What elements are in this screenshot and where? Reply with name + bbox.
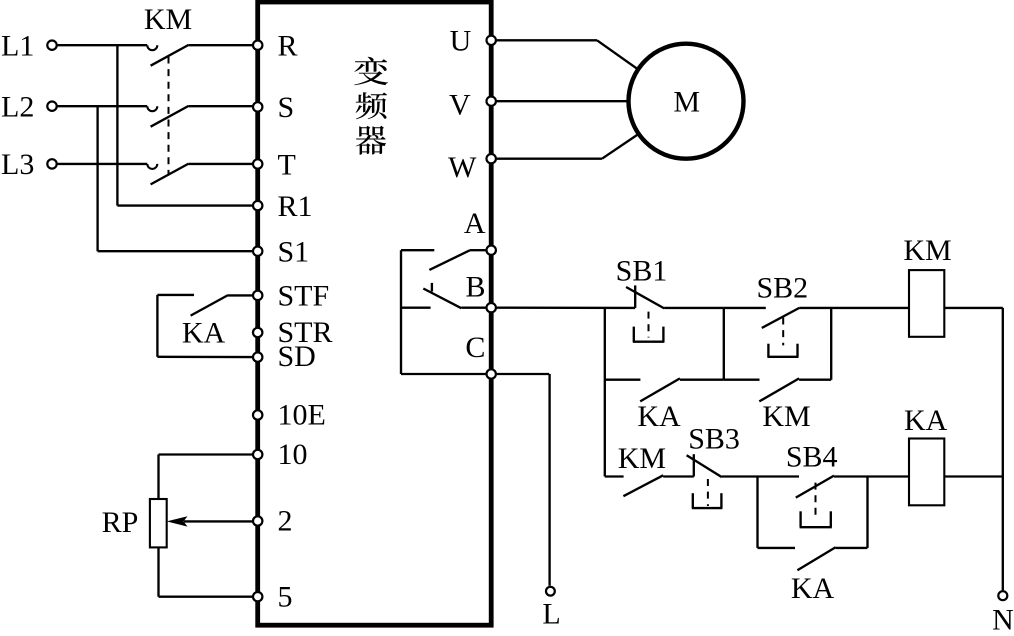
svg-text:KM: KM: [618, 442, 666, 475]
svg-text:R1: R1: [278, 190, 313, 223]
svg-text:S1: S1: [278, 236, 310, 269]
svg-text:L1: L1: [1, 30, 34, 63]
svg-text:KM: KM: [903, 234, 951, 267]
svg-text:U: U: [450, 24, 472, 57]
svg-text:KM: KM: [762, 400, 810, 433]
svg-text:C: C: [465, 331, 485, 364]
svg-text:M: M: [673, 86, 700, 119]
svg-text:S: S: [278, 91, 295, 124]
svg-text:STF: STF: [278, 280, 330, 313]
svg-text:10E: 10E: [278, 399, 326, 432]
svg-text:10: 10: [278, 438, 308, 471]
svg-text:L2: L2: [1, 91, 34, 124]
svg-text:RP: RP: [102, 506, 139, 539]
svg-text:SD: SD: [278, 340, 316, 373]
svg-text:SB3: SB3: [688, 422, 740, 455]
svg-text:W: W: [448, 151, 477, 184]
svg-text:KA: KA: [791, 572, 835, 605]
svg-text:L: L: [542, 598, 560, 631]
svg-text:B: B: [465, 271, 485, 304]
svg-text:KM: KM: [144, 3, 192, 36]
svg-text:V: V: [449, 89, 471, 122]
svg-text:R: R: [278, 30, 298, 63]
svg-text:KA: KA: [637, 400, 681, 433]
svg-text:SB1: SB1: [616, 255, 668, 288]
svg-text:5: 5: [278, 580, 293, 613]
svg-text:L3: L3: [1, 148, 34, 181]
svg-text:N: N: [992, 604, 1014, 632]
svg-text:KA: KA: [182, 316, 226, 349]
svg-text:SB2: SB2: [756, 271, 808, 304]
svg-text:A: A: [464, 207, 486, 240]
svg-text:SB4: SB4: [786, 441, 838, 474]
svg-text:2: 2: [278, 505, 293, 538]
svg-text:KA: KA: [904, 404, 948, 437]
svg-text:T: T: [278, 148, 296, 181]
